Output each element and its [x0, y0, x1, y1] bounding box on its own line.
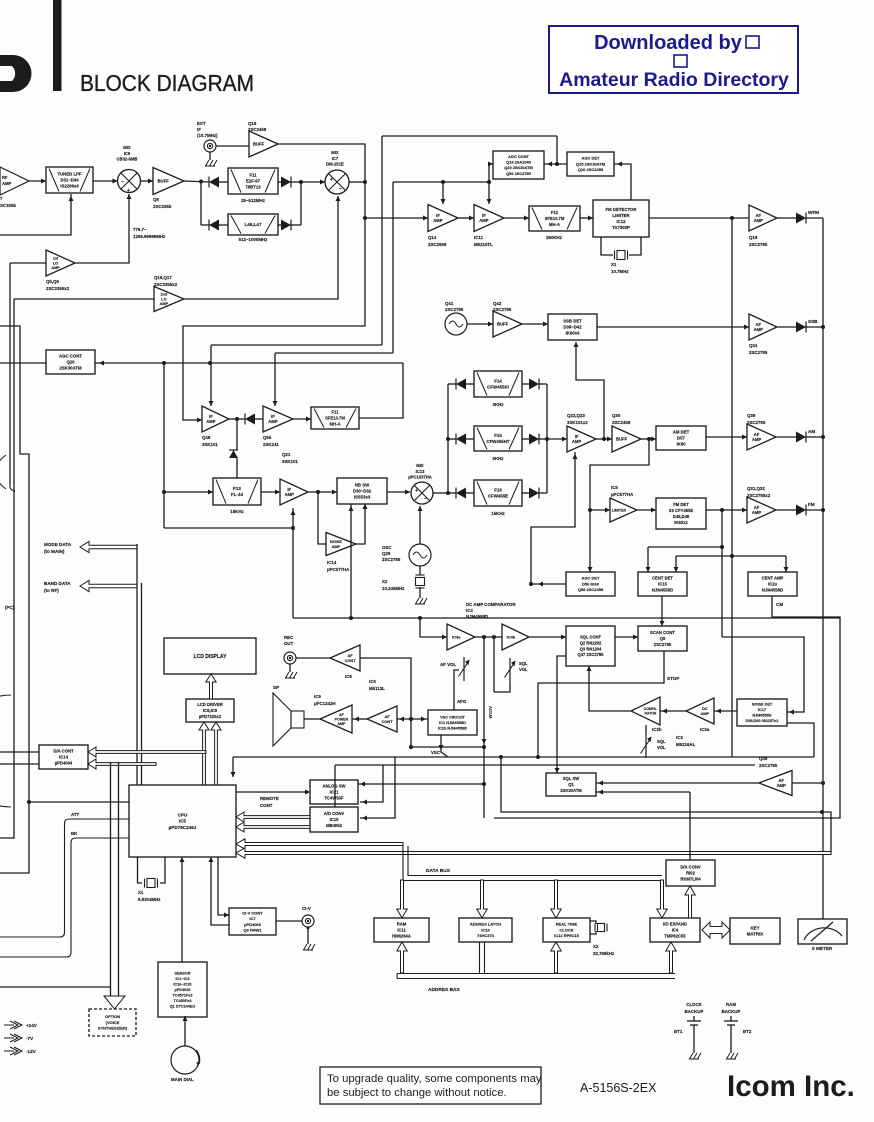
svg-text:Q47 2SC2785: Q47 2SC2785 [578, 652, 605, 657]
node bank out [545, 437, 549, 441]
svg-text:AMP: AMP [752, 510, 762, 515]
svg-text:2nd: 2nd [161, 293, 168, 297]
node cent 2 [730, 554, 734, 558]
svg-text:3KHz: 3KHz [493, 402, 505, 407]
agc cont Q20 box [46, 350, 95, 374]
svg-text:ADDRES LATCH: ADDRES LATCH [470, 922, 501, 927]
svg-text:250KHz: 250KHz [546, 235, 563, 240]
svg-text:NJM4558D: NJM4558D [762, 587, 783, 592]
wire 1st LO amp to mixer IC6 [75, 194, 129, 263]
wire into Q14 top [442, 182, 444, 204]
node audio bus lower [820, 810, 824, 814]
svg-text:D56 IK60: D56 IK60 [582, 581, 600, 586]
arrow ad conv to cpu b [236, 822, 310, 832]
svg-text:IC10: IC10 [481, 927, 490, 932]
svg-text:AMP: AMP [752, 437, 762, 442]
wire wfm to audio bus [805, 217, 823, 219]
svg-text:DM-251E: DM-251E [326, 162, 344, 167]
node sql line [492, 635, 496, 639]
svg-text:µPD78C246J: µPD78C246J [169, 825, 197, 830]
svg-text:AM DET: AM DET [673, 430, 690, 435]
wire vertical to wfm agc [381, 136, 383, 345]
svg-text:CONT: CONT [345, 658, 357, 663]
svg-text:FM DETECTOR: FM DETECTOR [606, 207, 638, 212]
wire bus b to ad conv [334, 765, 336, 807]
wire nb sw to mixer IC13 [387, 491, 410, 493]
wire up into Q21 gate [292, 508, 294, 528]
svg-text:IC1 NJM4558D: IC1 NJM4558D [439, 720, 466, 725]
svg-text:BT2: BT2 [743, 1029, 752, 1034]
node 10.7 junction [235, 417, 239, 421]
svg-text:D57: D57 [677, 436, 685, 441]
svg-text:µPD4030: µPD4030 [175, 988, 191, 992]
wire sensor to cpu [181, 857, 183, 962]
svg-text:Q14: Q14 [428, 235, 437, 240]
wire LO bus to 1st LO amp [10, 262, 46, 264]
long control bus b [335, 764, 755, 766]
wire buffer Q8 to filter switch node [184, 181, 209, 182]
svg-text:CM: CM [776, 602, 783, 607]
cent amp IC2a box [748, 572, 797, 596]
svg-text:IC3a: IC3a [700, 727, 710, 732]
svg-text:IC15: IC15 [330, 817, 340, 822]
svg-text:POWER: POWER [335, 717, 349, 721]
svg-text:2SC2785: 2SC2785 [382, 557, 401, 562]
node IC7 output [363, 180, 367, 184]
svg-text:STOP: STOP [667, 676, 679, 681]
svg-text:µPC577HA: µPC577HA [611, 492, 634, 497]
wire diode to Q55 [254, 418, 263, 420]
svg-text:AGC CONT: AGC CONT [59, 354, 82, 359]
svg-text:TUNED LPF: TUNED LPF [57, 172, 81, 177]
svg-text:Q39: Q39 [747, 413, 756, 418]
svg-text:2SC2785: 2SC2785 [747, 420, 766, 425]
wire bfo to buffer Q42 [467, 323, 493, 325]
svg-text:Q22,Q23: Q22,Q23 [567, 413, 585, 418]
wire af cont to power amp [352, 718, 367, 720]
svg-text:(VOICE: (VOICE [106, 1020, 120, 1025]
svg-text:IC2a: IC2a [768, 581, 778, 586]
title divider bar [53, 0, 62, 91]
filter F16 CFW455E 15kHz [474, 480, 522, 506]
wire F13 to Q21 [261, 491, 280, 493]
address bus [397, 974, 675, 979]
svg-text:Q15 2SK30ATM: Q15 2SK30ATM [576, 161, 606, 166]
svg-text:(PC): (PC) [5, 605, 15, 610]
svg-text:2SC2458: 2SC2458 [612, 420, 631, 425]
diode F15 in [456, 434, 466, 445]
svg-text:1st: 1st [53, 257, 59, 261]
buffer amp Q8 [153, 168, 184, 195]
svg-text:25~512MHz: 25~512MHz [241, 198, 266, 203]
svg-text:WFM: WFM [808, 210, 819, 215]
node f15 in [446, 437, 450, 441]
node af line [482, 635, 486, 639]
svg-text:AF VOL: AF VOL [440, 662, 456, 667]
wire mixer IC13 output [433, 492, 448, 494]
wire left edge to agc cont [0, 362, 46, 364]
svg-text:Q1: Q1 [568, 782, 574, 787]
left arc fragment a [0, 455, 6, 489]
wire to analog sw [358, 783, 484, 785]
wire node down to L46 row [200, 182, 202, 226]
arrow driver to display [206, 674, 216, 699]
wire ci-v to cpu [211, 857, 229, 925]
svg-text:Q16 2SC2458: Q16 2SC2458 [578, 167, 604, 172]
svg-text:AMP: AMP [285, 492, 295, 497]
svg-text:Q42: Q42 [493, 301, 502, 306]
svg-text:3SK101: 3SK101 [282, 459, 298, 464]
node f13 tap [162, 490, 166, 494]
svg-text:MB4052: MB4052 [326, 823, 342, 828]
wire af cont to vsc [397, 718, 428, 720]
svg-text:X2: X2 [593, 944, 599, 949]
svg-text:Q19: Q19 [248, 121, 257, 126]
sql cont box Q2 Q3 Q47 [566, 626, 615, 666]
node agc 1 [162, 361, 166, 365]
svg-text:SQL CONT: SQL CONT [580, 635, 602, 640]
power +24V arrow [4, 1021, 22, 1029]
svg-text:IC8,IC9: IC8,IC9 [203, 708, 218, 713]
svg-text:IC7: IC7 [249, 916, 256, 921]
svg-text:IF: IF [197, 127, 201, 132]
node nb bus [349, 616, 353, 620]
crystal X2 10.245MHz [419, 566, 421, 575]
wire diode to F11 [218, 181, 228, 183]
wire cent det feed b [676, 555, 786, 557]
left arc fragment b [0, 695, 11, 807]
wire af bus [411, 746, 484, 748]
svg-text:µPD7225x2: µPD7225x2 [199, 714, 222, 719]
svg-text:To upgrade quality, some compo: To upgrade quality, some components may [327, 1073, 542, 1085]
data bus drop latch [477, 880, 487, 918]
svg-text:Q20 2SK30ATM: Q20 2SK30ATM [504, 165, 532, 170]
svg-text:M5113L: M5113L [369, 686, 385, 691]
svg-text:SQL: SQL [657, 739, 666, 744]
sql sw Q1 box [546, 773, 596, 796]
arrow cpu to d/a cont a [88, 747, 206, 757]
noise blanker switch box [337, 478, 387, 504]
svg-text:IC5: IC5 [179, 819, 187, 824]
diode F16 out [529, 488, 539, 499]
scan cont Q9 box [638, 626, 687, 651]
svg-text:NOISE DET: NOISE DET [752, 703, 773, 707]
wire F12 to fm detector [580, 217, 593, 219]
power -12V arrow [4, 1047, 22, 1055]
main dial [171, 1046, 199, 1074]
svg-text:VOL: VOL [519, 667, 528, 672]
svg-text:LO: LO [53, 261, 58, 265]
svg-text:HM6264A: HM6264A [392, 933, 411, 938]
page title letter fragment [0, 55, 31, 92]
wire agc to if amps [393, 181, 489, 183]
svg-text:LCD DISPLAY: LCD DISPLAY [194, 654, 228, 660]
wire noise amp to nb sw [356, 504, 365, 544]
wire IC11 to F12 [504, 217, 529, 219]
svg-text:IC6: IC6 [369, 679, 376, 684]
node cent 1 [720, 545, 724, 549]
svg-text:REAL TIME: REAL TIME [556, 922, 578, 927]
wire am to audio bus [805, 436, 823, 438]
node agc det line [555, 162, 559, 166]
svg-text:Icom Inc.: Icom Inc. [727, 1070, 855, 1103]
audio output bus right [822, 218, 824, 919]
key matrix arrow [702, 922, 730, 938]
wire ssb tap up [576, 342, 604, 439]
d/a cont IC14 box [39, 745, 88, 769]
svg-text:LO: LO [161, 297, 166, 301]
node filter-in junction [199, 180, 203, 184]
svg-text:AMP: AMP [206, 419, 216, 424]
svg-text:2SK241: 2SK241 [263, 442, 279, 447]
svg-text:Q2 RN2202: Q2 RN2202 [580, 641, 602, 646]
wire cent det feed a [648, 546, 722, 548]
svg-text:EXT: EXT [197, 121, 206, 126]
svg-text:MH-A: MH-A [549, 222, 560, 227]
ram IC11 box [374, 918, 429, 942]
svg-text:BUFF: BUFF [253, 141, 265, 146]
wire analog sw lower arrow [360, 765, 383, 802]
svg-text:2SC2785x2: 2SC2785x2 [747, 493, 771, 498]
wire feedback top b [275, 352, 393, 354]
svg-text:AGC CONT: AGC CONT [508, 154, 529, 159]
svg-text:MODE DATA: MODE DATA [44, 542, 72, 547]
svg-text:78BT13: 78BT13 [245, 185, 261, 190]
wire power amp to speaker [304, 718, 320, 720]
wire rec out to af cont [296, 657, 330, 659]
svg-text:AMP: AMP [754, 327, 764, 332]
wire 2nd LO amp to mixer IC7 [184, 196, 338, 299]
filter F11 SFE10.7M [311, 407, 359, 429]
svg-text:SQL: SQL [519, 661, 528, 666]
svg-text:IC6: IC6 [124, 151, 131, 156]
wire filter bank input bus [447, 384, 449, 493]
svg-text:RKM7LI04: RKM7LI04 [680, 876, 701, 881]
node audio q49 tap [821, 781, 825, 785]
svg-text:S METER: S METER [812, 946, 833, 951]
if amp IC11 M5215TL [474, 205, 504, 232]
af line down [483, 637, 485, 818]
filter F13 FL-44 15kHz [213, 478, 261, 505]
svg-text:BACKUP: BACKUP [722, 1009, 741, 1014]
agc det Q15 Q16 box [567, 152, 614, 176]
svg-text:AF: AF [339, 713, 345, 717]
svg-text:BK: BK [71, 831, 78, 836]
svg-text:I/O EXPAND: I/O EXPAND [663, 922, 687, 927]
wire f15 row [448, 438, 456, 440]
arrow ad conv to cpu a [236, 812, 310, 822]
vertical fm noise bus [731, 218, 733, 757]
node comp in [418, 616, 422, 620]
wire pll bus C [0, 326, 29, 873]
svg-text:CENT AMP: CENT AMP [762, 576, 784, 581]
svg-text:IC14: IC14 [59, 754, 69, 759]
wire ci-v cont to jack [276, 920, 302, 922]
wire rf amp to tuned lpf [29, 180, 46, 182]
filter F14 CFW455KI 3kHz [474, 371, 522, 397]
comparator bus [293, 617, 840, 619]
svg-text:IC9: IC9 [314, 694, 321, 699]
svg-text:BACKUP: BACKUP [685, 1009, 704, 1014]
svg-text:VOL: VOL [657, 745, 666, 750]
wire Q22 out [596, 438, 612, 440]
arrow io to d/a conv [685, 886, 695, 918]
svg-text:IC2b NJM4558D: IC2b NJM4558D [438, 725, 467, 730]
wire buff to am det [641, 438, 656, 440]
diode L46 input [209, 220, 219, 231]
svg-text:ADSM: ADSM [488, 706, 493, 719]
wire ad conv right arrow [360, 757, 395, 818]
svg-text:MH-A: MH-A [330, 421, 341, 426]
svg-text:+: + [127, 188, 130, 194]
svg-text:6KHz: 6KHz [493, 456, 505, 461]
data bus pair to cpu [136, 551, 138, 786]
wire lpf to mixer IC6 [93, 180, 118, 182]
svg-text:2SC2785: 2SC2785 [759, 763, 778, 768]
svg-text:SC3355: SC3355 [0, 203, 16, 208]
wire vsc bus down [501, 757, 822, 812]
data bus drop ram [397, 880, 407, 918]
svg-text:32.768kHz: 32.768kHz [593, 951, 615, 956]
svg-text:AMP: AMP [572, 439, 582, 444]
svg-text:Q1 DTC144EU: Q1 DTC144EU [170, 1004, 196, 1008]
wire am tap to limiter [590, 439, 649, 572]
svg-text:NB SW: NB SW [355, 483, 370, 488]
data bus lines [403, 846, 662, 881]
noise amp IC14 [326, 533, 356, 556]
svg-text:D48,D49: D48,D49 [673, 514, 690, 519]
svg-text:−: − [121, 179, 124, 185]
svg-text:BUFF: BUFF [158, 178, 170, 183]
wire fm detector to agc det [614, 164, 631, 200]
wire ext-if to buffer Q19 [216, 145, 249, 147]
svg-text:IC5: IC5 [611, 485, 618, 490]
svg-text:AMP: AMP [337, 722, 346, 726]
svg-text:F16: F16 [494, 487, 502, 492]
node analog sw tap [482, 782, 486, 786]
node ic11 agc [487, 180, 491, 184]
svg-text:(to MAIN): (to MAIN) [44, 549, 65, 554]
svg-text:3SK101x2: 3SK101x2 [567, 420, 588, 425]
option voice synth box [89, 1009, 136, 1036]
svg-text:15KHz: 15KHz [230, 509, 244, 514]
svg-text:SSB DET: SSB DET [563, 319, 582, 324]
svg-text:BUFF: BUFF [616, 436, 628, 441]
svg-text:BLOCK DIAGRAM: BLOCK DIAGRAM [80, 70, 254, 96]
svg-text:10.7MHz: 10.7MHz [611, 269, 629, 274]
svg-text:10.245MHz: 10.245MHz [382, 586, 405, 591]
wire audio bus to Q49 [792, 782, 823, 784]
svg-text:CB32-6MB: CB32-6MB [117, 157, 138, 162]
svg-text:MATRIX: MATRIX [747, 932, 764, 937]
filter F15 CFW455HT 6kHz [474, 426, 522, 451]
analog sw IC21 box [310, 780, 358, 804]
wire vertical 2nd agc [392, 182, 394, 353]
svg-text:CPU: CPU [178, 812, 188, 817]
wire pll to cpu [29, 801, 129, 803]
svg-text:MIX: MIX [416, 463, 424, 468]
diode WFM out [796, 213, 806, 224]
svg-text:MIX: MIX [331, 150, 339, 155]
svg-text:IC12: IC12 [616, 219, 626, 224]
af cont rec IC8 [330, 645, 360, 671]
address bus riser io [666, 942, 676, 973]
svg-text:IC11: IC11 [397, 927, 406, 932]
svg-text:DATA BUS: DATA BUS [426, 868, 451, 874]
cpu long bus arrow b [236, 848, 831, 858]
wire fm to audio bus [805, 509, 823, 511]
svg-text:Q3 RN1204: Q3 RN1204 [580, 646, 602, 651]
svg-text:1266.99999MHz: 1266.99999MHz [133, 234, 166, 239]
wire noise det feed [722, 637, 804, 712]
svg-text:CLOCK: CLOCK [686, 1002, 702, 1007]
svg-text:+: + [330, 177, 333, 183]
long control bus a [233, 756, 814, 758]
svg-text:Q16,Q17: Q16,Q17 [154, 275, 172, 280]
svg-text:L46,L47: L46,L47 [244, 222, 262, 227]
svg-text:AMP: AMP [700, 711, 709, 716]
node nb junction [316, 490, 320, 494]
svg-text:−: − [424, 496, 427, 502]
svg-text:D/A CONV: D/A CONV [680, 865, 701, 870]
wire d/a conv up [689, 792, 691, 860]
svg-text:RF: RF [2, 175, 8, 180]
wire lpf tracking input [0, 194, 71, 235]
wire bus into cpu [232, 757, 234, 777]
svg-text:A/D CONV: A/D CONV [324, 811, 345, 816]
option feed pair [110, 762, 112, 996]
svg-text:Q48: Q48 [202, 435, 211, 440]
wire LO bus vertical left B [0, 299, 14, 838]
diode F14 out [529, 379, 539, 390]
wire vsc output [441, 735, 448, 757]
svg-text:+24V: +24V [26, 1023, 38, 1028]
svg-text:IC14: IC14 [327, 560, 337, 565]
wire to F13 input [164, 491, 213, 493]
wire remote cont [236, 791, 310, 793]
wire f14 row in [448, 383, 456, 385]
svg-text:Q41: Q41 [445, 301, 454, 306]
svg-text:512~1000MHz: 512~1000MHz [239, 237, 268, 242]
wire Q49 to sql sw [596, 782, 759, 784]
svg-text:X3 CFY455E: X3 CFY455E [669, 508, 694, 513]
wire Q42 to ssb det [522, 323, 548, 325]
if amp Q48 3SK101 [202, 406, 229, 432]
addres latch box [459, 918, 512, 942]
diode AM out [796, 432, 806, 443]
af amp Q18 [749, 205, 777, 231]
diode F14 in [456, 379, 466, 390]
wire bus to IC4a [420, 618, 447, 637]
svg-text:D31~D34: D31~D34 [60, 178, 79, 183]
wire ssb to audio bus [805, 326, 823, 328]
lcd display box [164, 638, 256, 674]
node filter-out junction [299, 180, 303, 184]
svg-text:Q29: Q29 [382, 551, 391, 556]
power -7V arrow [4, 1034, 22, 1042]
svg-text:ATT: ATT [71, 812, 80, 817]
wire noise det to dc amp [714, 710, 737, 712]
key matrix box [730, 918, 780, 944]
wire to limiter [590, 509, 610, 511]
wire junction down to F13 top [236, 419, 238, 450]
svg-text:9.8304MHz: 9.8304MHz [138, 897, 161, 902]
diode L46 output [281, 220, 291, 231]
svg-text:Q20: Q20 [66, 360, 75, 365]
wire cent det to scan cont [661, 596, 663, 626]
svg-text:µPD4069: µPD4069 [244, 922, 262, 927]
wire dial to sensor [184, 1016, 186, 1046]
